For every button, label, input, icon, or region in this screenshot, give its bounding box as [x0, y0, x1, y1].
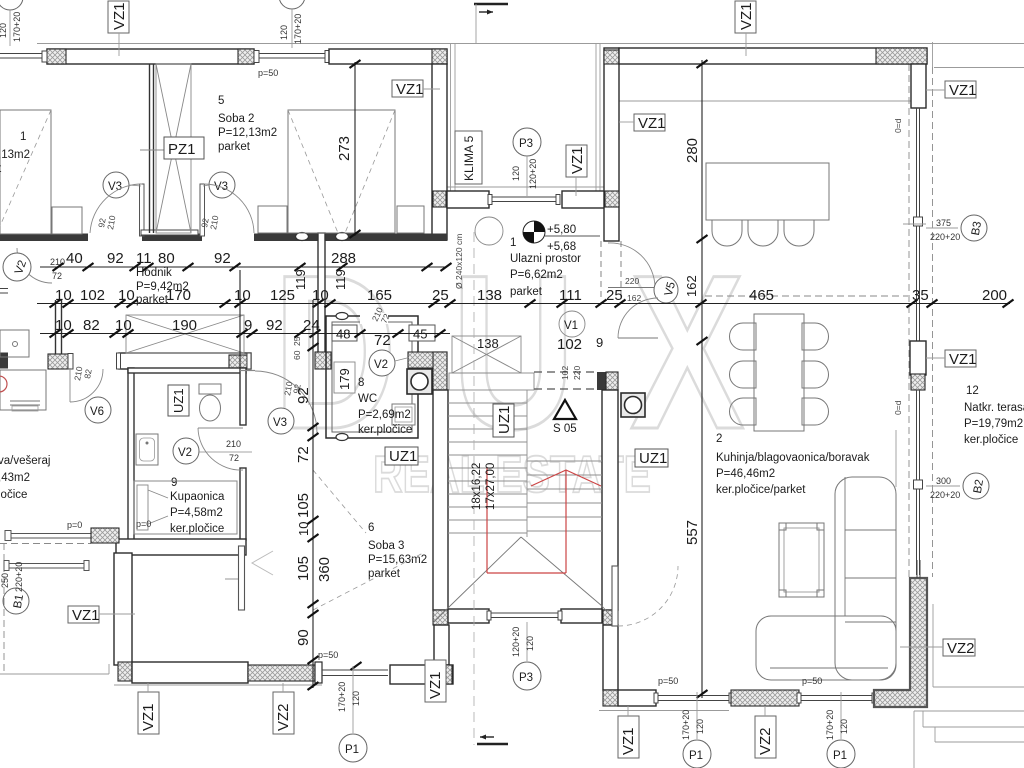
P1 bubble left	[352, 666, 354, 733]
top wall piece B	[329, 49, 447, 64]
B1 circle left	[3, 588, 29, 614]
svg-text:VZ2: VZ2	[757, 727, 774, 755]
roofline inner right building	[619, 100, 911, 102]
vent square with circle	[407, 369, 432, 394]
left terrace dashed boundary	[0, 543, 91, 545]
grid bubble top left	[0, 0, 23, 10]
svg-text:Hodnik: Hodnik	[136, 267, 172, 279]
terrace dashed boundary right	[908, 64, 910, 577]
label 48	[332, 325, 357, 341]
right pillar 1	[911, 64, 926, 108]
svg-text:VZ1: VZ1	[620, 727, 637, 755]
svg-text:300: 300	[936, 476, 951, 486]
WC room walls	[326, 316, 418, 438]
terrace dashed boundary horizontal	[705, 295, 908, 297]
svg-text:ločice: ločice	[0, 489, 27, 501]
door leaf Soba1	[140, 184, 145, 236]
label VZ1 box right building	[634, 114, 665, 131]
svg-text:V2: V2	[374, 359, 388, 371]
svg-text:190: 190	[172, 317, 197, 334]
UZ1 boxes	[385, 447, 418, 465]
svg-text:p=50: p=50	[258, 68, 278, 78]
porch bottom wall left piece	[447, 191, 489, 208]
wall below stair left	[434, 625, 449, 665]
svg-text:82: 82	[83, 317, 100, 334]
kitchen wall hatch middle	[731, 690, 799, 706]
svg-text:92: 92	[295, 387, 312, 404]
svg-text:125: 125	[270, 287, 295, 304]
V3 circle soba1	[103, 172, 129, 198]
svg-text:25: 25	[606, 287, 623, 304]
hatch block left terrace	[91, 528, 119, 543]
building left wall lower	[114, 553, 132, 665]
svg-text:Soba 2: Soba 2	[218, 113, 254, 125]
svg-text:UZ1: UZ1	[389, 448, 417, 465]
dim chain x=702	[701, 60, 703, 698]
svg-text:VZ1: VZ1	[569, 146, 586, 174]
svg-text:24: 24	[303, 317, 320, 334]
svg-text:p=0: p=0	[136, 519, 151, 529]
svg-text:138: 138	[477, 287, 502, 304]
label 45	[409, 325, 435, 341]
label PZ1	[164, 137, 204, 159]
soba2 door arc	[204, 184, 254, 233]
nightstand Soba1	[52, 207, 82, 234]
svg-text:VZ1: VZ1	[140, 703, 157, 731]
svg-text:72: 72	[374, 332, 391, 349]
label VZ1 rotated porch	[566, 145, 587, 177]
svg-text:119: 119	[333, 269, 348, 290]
P1 bubble kitchen 1	[696, 692, 698, 739]
svg-text:Ø 240x120 cm: Ø 240x120 cm	[454, 234, 464, 289]
svg-text:P=6,62m2: P=6,62m2	[510, 269, 563, 281]
svg-text:Natkr. terasa: Natkr. terasa	[964, 402, 1024, 414]
section mark bottom	[477, 743, 508, 745]
svg-text:10: 10	[296, 522, 311, 536]
stair flight diagonals	[433, 537, 617, 623]
svg-text:P3: P3	[519, 672, 533, 684]
B3 circle + dims	[961, 215, 987, 241]
svg-text:P1: P1	[833, 750, 847, 762]
svg-text:0=d: 0=d	[893, 118, 903, 133]
svg-text:120+20: 120+20	[511, 627, 521, 657]
svg-text:p=50: p=50	[658, 676, 678, 686]
svg-text:90: 90	[295, 629, 312, 646]
V1 door arc	[618, 337, 658, 339]
entry door V5 arc	[608, 243, 655, 287]
entry threshold dashes	[534, 371, 597, 373]
svg-text:UZ1: UZ1	[639, 450, 667, 467]
toilet	[199, 384, 221, 394]
svg-text:72: 72	[52, 271, 62, 281]
svg-text:12: 12	[966, 385, 979, 397]
svg-text:288: 288	[331, 250, 356, 267]
label 179 rotated	[334, 362, 355, 393]
bathroom bottom wall	[116, 539, 246, 555]
svg-text:parket: parket	[368, 568, 401, 580]
V2 circle bath	[173, 438, 199, 464]
svg-text:200: 200	[982, 287, 1007, 304]
svg-text:parket: parket	[218, 141, 251, 153]
svg-text:10: 10	[234, 287, 251, 304]
svg-text:9: 9	[244, 317, 252, 334]
svg-text:Soba 3: Soba 3	[368, 540, 404, 552]
bathroom door arc	[198, 427, 243, 429]
svg-text:ker.pločice: ker.pločice	[964, 434, 1018, 446]
kitchen window 2	[799, 695, 874, 697]
bathroom left wall	[128, 368, 134, 540]
svg-text:220+20: 220+20	[930, 490, 960, 500]
svg-text:6: 6	[368, 522, 374, 534]
window above VZ2 wall	[916, 560, 918, 578]
svg-text:82: 82	[82, 368, 94, 379]
bottom rotated label VZ1 (left building)	[138, 692, 159, 734]
svg-text:119: 119	[293, 269, 308, 290]
svg-text:170+20: 170+20	[293, 14, 303, 44]
top wall right building	[619, 48, 927, 64]
svg-text:Kupaonica: Kupaonica	[170, 491, 225, 503]
svg-text:111: 111	[559, 287, 582, 304]
left window B1 area	[8, 563, 86, 565]
svg-text:105: 105	[295, 556, 312, 581]
wall hodnik/ulaz divider	[318, 233, 325, 354]
svg-text:UZ1: UZ1	[496, 406, 513, 434]
P1 bubble kitchen 2	[840, 692, 842, 739]
grid bubble top x292	[279, 0, 305, 9]
porch bottom wall right piece	[562, 191, 605, 208]
label UZ1 rotated bath	[168, 385, 189, 416]
svg-text:P=9,42m2: P=9,42m2	[136, 281, 189, 293]
svg-text:+5,68: +5,68	[547, 241, 576, 253]
svg-text:18x16,22: 18x16,22	[471, 463, 483, 510]
watermark DUX	[273, 228, 799, 504]
svg-text:72: 72	[295, 446, 312, 463]
bathroom top wall	[128, 368, 246, 373]
stair treads upper flight	[448, 390, 602, 537]
door leaf Soba2	[200, 184, 205, 236]
svg-text:,13m2: ,13m2	[0, 149, 30, 161]
svg-text:P=46,46m2: P=46,46m2	[716, 468, 775, 480]
door bell circle	[475, 217, 503, 245]
svg-text:92: 92	[214, 250, 231, 267]
stair walking line dashed	[473, 232, 475, 745]
svg-text:V2: V2	[178, 447, 192, 459]
kitchen window 1	[656, 695, 731, 697]
bathroom right wall upper	[240, 368, 246, 425]
svg-text:Kuhinja/blagovaonica/boravak: Kuhinja/blagovaonica/boravak	[716, 452, 870, 464]
svg-text:162: 162	[684, 275, 699, 297]
svg-text:P3: P3	[519, 138, 533, 150]
svg-text:S 05: S 05	[553, 423, 577, 435]
svg-text:VZ1: VZ1	[111, 2, 128, 30]
svg-text:250: 250	[0, 573, 10, 588]
sill line below kitchen wall	[599, 710, 729, 712]
bed Soba1	[0, 110, 51, 234]
laundry door arc	[69, 368, 71, 402]
entry door sill	[491, 196, 558, 198]
shower tray	[134, 481, 237, 534]
WC sink	[392, 404, 415, 425]
svg-text:ker.pločice/parket: ker.pločice/parket	[716, 484, 806, 496]
svg-text:B2: B2	[972, 479, 986, 495]
vent square right of stairs	[621, 393, 645, 417]
svg-text:170+20: 170+20	[681, 710, 691, 740]
bottom wall left building	[118, 662, 132, 681]
stairwell right wall	[602, 390, 618, 610]
svg-text:120: 120	[279, 25, 289, 40]
survey point symbol	[523, 221, 545, 243]
dim chain x=313	[312, 300, 314, 688]
svg-text:10: 10	[118, 287, 135, 304]
kitchen bottom wall block	[618, 690, 656, 706]
window W2 (p=50)	[258, 53, 325, 55]
svg-text:5: 5	[218, 95, 224, 107]
svg-text:VZ1: VZ1	[738, 2, 755, 30]
svg-text:92: 92	[266, 317, 283, 334]
svg-text:105: 105	[295, 493, 312, 518]
terrace step lines bottom right	[933, 686, 1024, 688]
porch left wall VZ1	[432, 64, 447, 240]
wall below stair right	[603, 625, 618, 690]
dim row B main chain	[37, 303, 1010, 305]
label VZ1 rotated top left	[108, 1, 129, 33]
svg-text:VZ1: VZ1	[638, 115, 666, 132]
closet 190 with X	[126, 315, 244, 353]
stair bottom wall pieces	[448, 609, 489, 623]
chairs left	[730, 323, 757, 350]
svg-text:ker.pločice: ker.pločice	[358, 424, 412, 436]
svg-text:1: 1	[510, 237, 516, 249]
Soba3 door arc	[255, 371, 317, 433]
dining table	[754, 314, 804, 431]
svg-text:B3: B3	[970, 221, 984, 237]
coffee table	[779, 523, 824, 597]
right glass wall (window)	[916, 108, 918, 217]
porch left roof lines	[450, 44, 452, 191]
kitchen island	[706, 163, 829, 220]
svg-text:25: 25	[292, 336, 302, 346]
stair window	[490, 612, 560, 614]
svg-text:PZ1: PZ1	[168, 141, 196, 158]
laundry counter	[0, 330, 29, 357]
svg-text:375: 375	[936, 218, 951, 228]
svg-text:KLIMA 5: KLIMA 5	[462, 135, 476, 181]
P3 circle top	[513, 128, 541, 156]
svg-text:120: 120	[351, 691, 361, 706]
bottom rotated label VZ2 (kitchen)	[755, 716, 776, 758]
furniture dashed leaders Soba3	[313, 470, 366, 533]
bottom rotated label VZ1 (kitchen left)	[618, 716, 639, 758]
corridor bottom wall with closet wall	[119, 353, 251, 369]
chairs right	[802, 323, 829, 350]
V3 circle soba2	[209, 172, 235, 198]
svg-text:P=12,13m2: P=12,13m2	[218, 127, 277, 139]
svg-text:parket: parket	[510, 286, 543, 298]
svg-text:60: 60	[292, 350, 302, 360]
UZ1 rotated stairs	[493, 404, 514, 437]
svg-text:11: 11	[136, 250, 152, 267]
label VZ2 box right bottom	[943, 639, 975, 656]
right glass wall lower	[916, 390, 918, 575]
right pillar 2 VZ1	[910, 341, 926, 375]
svg-text:40: 40	[66, 250, 83, 267]
bath sink	[136, 434, 158, 465]
window W1 left edge	[0, 53, 44, 55]
svg-text:p=0: p=0	[67, 520, 82, 530]
dim row C line	[40, 333, 450, 335]
svg-text:25: 25	[432, 287, 449, 304]
svg-text:P=4,58m2: P=4,58m2	[170, 507, 223, 519]
oval window markers on wall	[296, 233, 309, 241]
svg-text:210: 210	[226, 439, 241, 449]
svg-text:1: 1	[20, 131, 26, 143]
svg-text:B1: B1	[12, 594, 26, 610]
svg-text:120: 120	[839, 719, 849, 734]
hatch block left of WC	[315, 352, 331, 369]
svg-text:VZ2: VZ2	[275, 703, 292, 731]
window left edge corridor	[0, 288, 8, 290]
label VZ1 box (top middle)	[392, 80, 423, 97]
svg-text:120: 120	[511, 166, 521, 181]
svg-text:210: 210	[50, 257, 65, 267]
svg-text:170+20: 170+20	[12, 12, 22, 42]
porch right wall VZ1	[604, 48, 619, 241]
stair red safety lines	[487, 467, 601, 573]
red mark laundry	[0, 376, 7, 392]
S05 triangle	[554, 400, 576, 419]
svg-text:120: 120	[0, 23, 8, 38]
svg-text:465: 465	[749, 287, 774, 304]
connector window right	[914, 480, 923, 489]
roof overhang line top	[37, 43, 1024, 45]
thick corner wall VZ2	[874, 578, 927, 707]
svg-text:220: 220	[572, 366, 582, 380]
svg-text:9: 9	[596, 335, 603, 350]
svg-text:VZ1: VZ1	[72, 607, 100, 624]
svg-text:10: 10	[312, 287, 329, 304]
shaft hatch right of WC	[408, 352, 447, 368]
bar stools	[712, 220, 742, 246]
svg-text:92: 92	[107, 250, 124, 267]
corridor left wall stub	[55, 300, 57, 354]
svg-text:8: 8	[358, 377, 364, 389]
left window lower (laundry)	[10, 533, 91, 535]
terrace top edge line	[934, 67, 1024, 69]
building outline below bottom wall	[114, 684, 322, 686]
svg-text:p=50: p=50	[802, 676, 822, 686]
svg-text:80: 80	[158, 250, 175, 267]
label VZ1 rotated top right	[735, 1, 756, 33]
svg-text:P1: P1	[345, 744, 359, 756]
corner sofa	[835, 477, 896, 680]
svg-text:10: 10	[55, 317, 72, 334]
door sill Hodnik 80 door	[141, 230, 198, 235]
kitchen entry wall block	[597, 372, 606, 390]
svg-text:220+20: 220+20	[14, 562, 24, 592]
bathroom right wall lower	[240, 468, 246, 540]
B2 circle + dims	[963, 473, 989, 499]
svg-text:WC: WC	[358, 393, 377, 405]
svg-text:VZ1: VZ1	[427, 671, 444, 699]
label VZ1 box far right top	[945, 81, 976, 98]
WC wall ovals	[336, 313, 348, 320]
svg-text:V1: V1	[564, 320, 578, 332]
V6 circle	[85, 397, 111, 423]
kitchen wall thin lines	[895, 430, 897, 487]
svg-text:360: 360	[316, 557, 333, 582]
svg-text:V3: V3	[273, 417, 287, 429]
terrace door glass door	[612, 566, 618, 626]
svg-text:72: 72	[229, 453, 239, 463]
svg-text:P=2,69m2: P=2,69m2	[358, 409, 411, 421]
corridor bottom wall hatch block left	[48, 354, 68, 369]
svg-text:0=d: 0=d	[893, 400, 903, 415]
stair side closet X-box 138	[452, 336, 521, 373]
entry opening dashes	[600, 241, 602, 300]
svg-text:17x27,00: 17x27,00	[485, 463, 497, 510]
svg-text:120: 120	[525, 636, 535, 651]
svg-text:220+20: 220+20	[930, 232, 960, 242]
svg-text:102: 102	[560, 366, 570, 380]
bottom rotated label VZ1 (stair)	[425, 660, 446, 702]
P3 bubble bottom	[526, 622, 528, 661]
washing machine	[0, 370, 46, 410]
svg-text:179: 179	[337, 368, 352, 390]
top wall piece A (Soba1/Soba2)	[47, 49, 254, 64]
partition PZ1 chimney	[149, 64, 151, 233]
bed Soba2	[288, 110, 395, 233]
neighbour apartment bottom edge	[0, 673, 109, 675]
svg-text:va/vešeraj: va/vešeraj	[0, 455, 50, 467]
svg-text:102: 102	[557, 336, 582, 353]
terrace sliding door	[322, 669, 388, 671]
svg-text:VZ2: VZ2	[947, 640, 975, 657]
svg-text:ker.pločice: ker.pločice	[170, 523, 224, 535]
svg-text:p=50: p=50	[318, 650, 338, 660]
V2 circle WC	[369, 350, 395, 376]
svg-text:138: 138	[477, 336, 499, 351]
svg-text:280: 280	[684, 138, 701, 163]
porch inner sill line	[447, 186, 604, 188]
svg-text:2: 2	[716, 433, 722, 445]
svg-text:120: 120	[695, 719, 705, 734]
svg-text:VZ1: VZ1	[949, 351, 977, 368]
svg-text:Ulazni prostor: Ulazni prostor	[510, 253, 581, 265]
label VZ1 box right middle	[945, 350, 976, 367]
svg-text:9: 9	[171, 477, 177, 489]
dim 273 Soba2	[354, 62, 356, 236]
svg-text:10: 10	[115, 317, 132, 334]
bedroom bottom wall band	[0, 234, 447, 242]
bottom wall piece right	[390, 665, 453, 684]
svg-text:102: 102	[80, 287, 105, 304]
svg-text:+5,80: +5,80	[547, 224, 576, 236]
klima rotated label	[455, 131, 482, 184]
svg-text:170+20: 170+20	[825, 710, 835, 740]
porch right roof lines	[595, 44, 597, 191]
svg-text:170+20: 170+20	[337, 682, 347, 712]
corridor V2 door arc left	[17, 248, 52, 283]
dim chain x=240 vertical	[239, 270, 241, 368]
svg-text:VZ1: VZ1	[396, 81, 424, 98]
svg-text:220: 220	[625, 276, 639, 286]
V3 circle soba3	[268, 408, 294, 434]
svg-text:162: 162	[627, 293, 641, 303]
svg-text:UZ1: UZ1	[171, 388, 186, 413]
svg-text:10: 10	[55, 287, 72, 304]
svg-text:273: 273	[336, 136, 353, 161]
svg-text:V6: V6	[90, 406, 104, 418]
